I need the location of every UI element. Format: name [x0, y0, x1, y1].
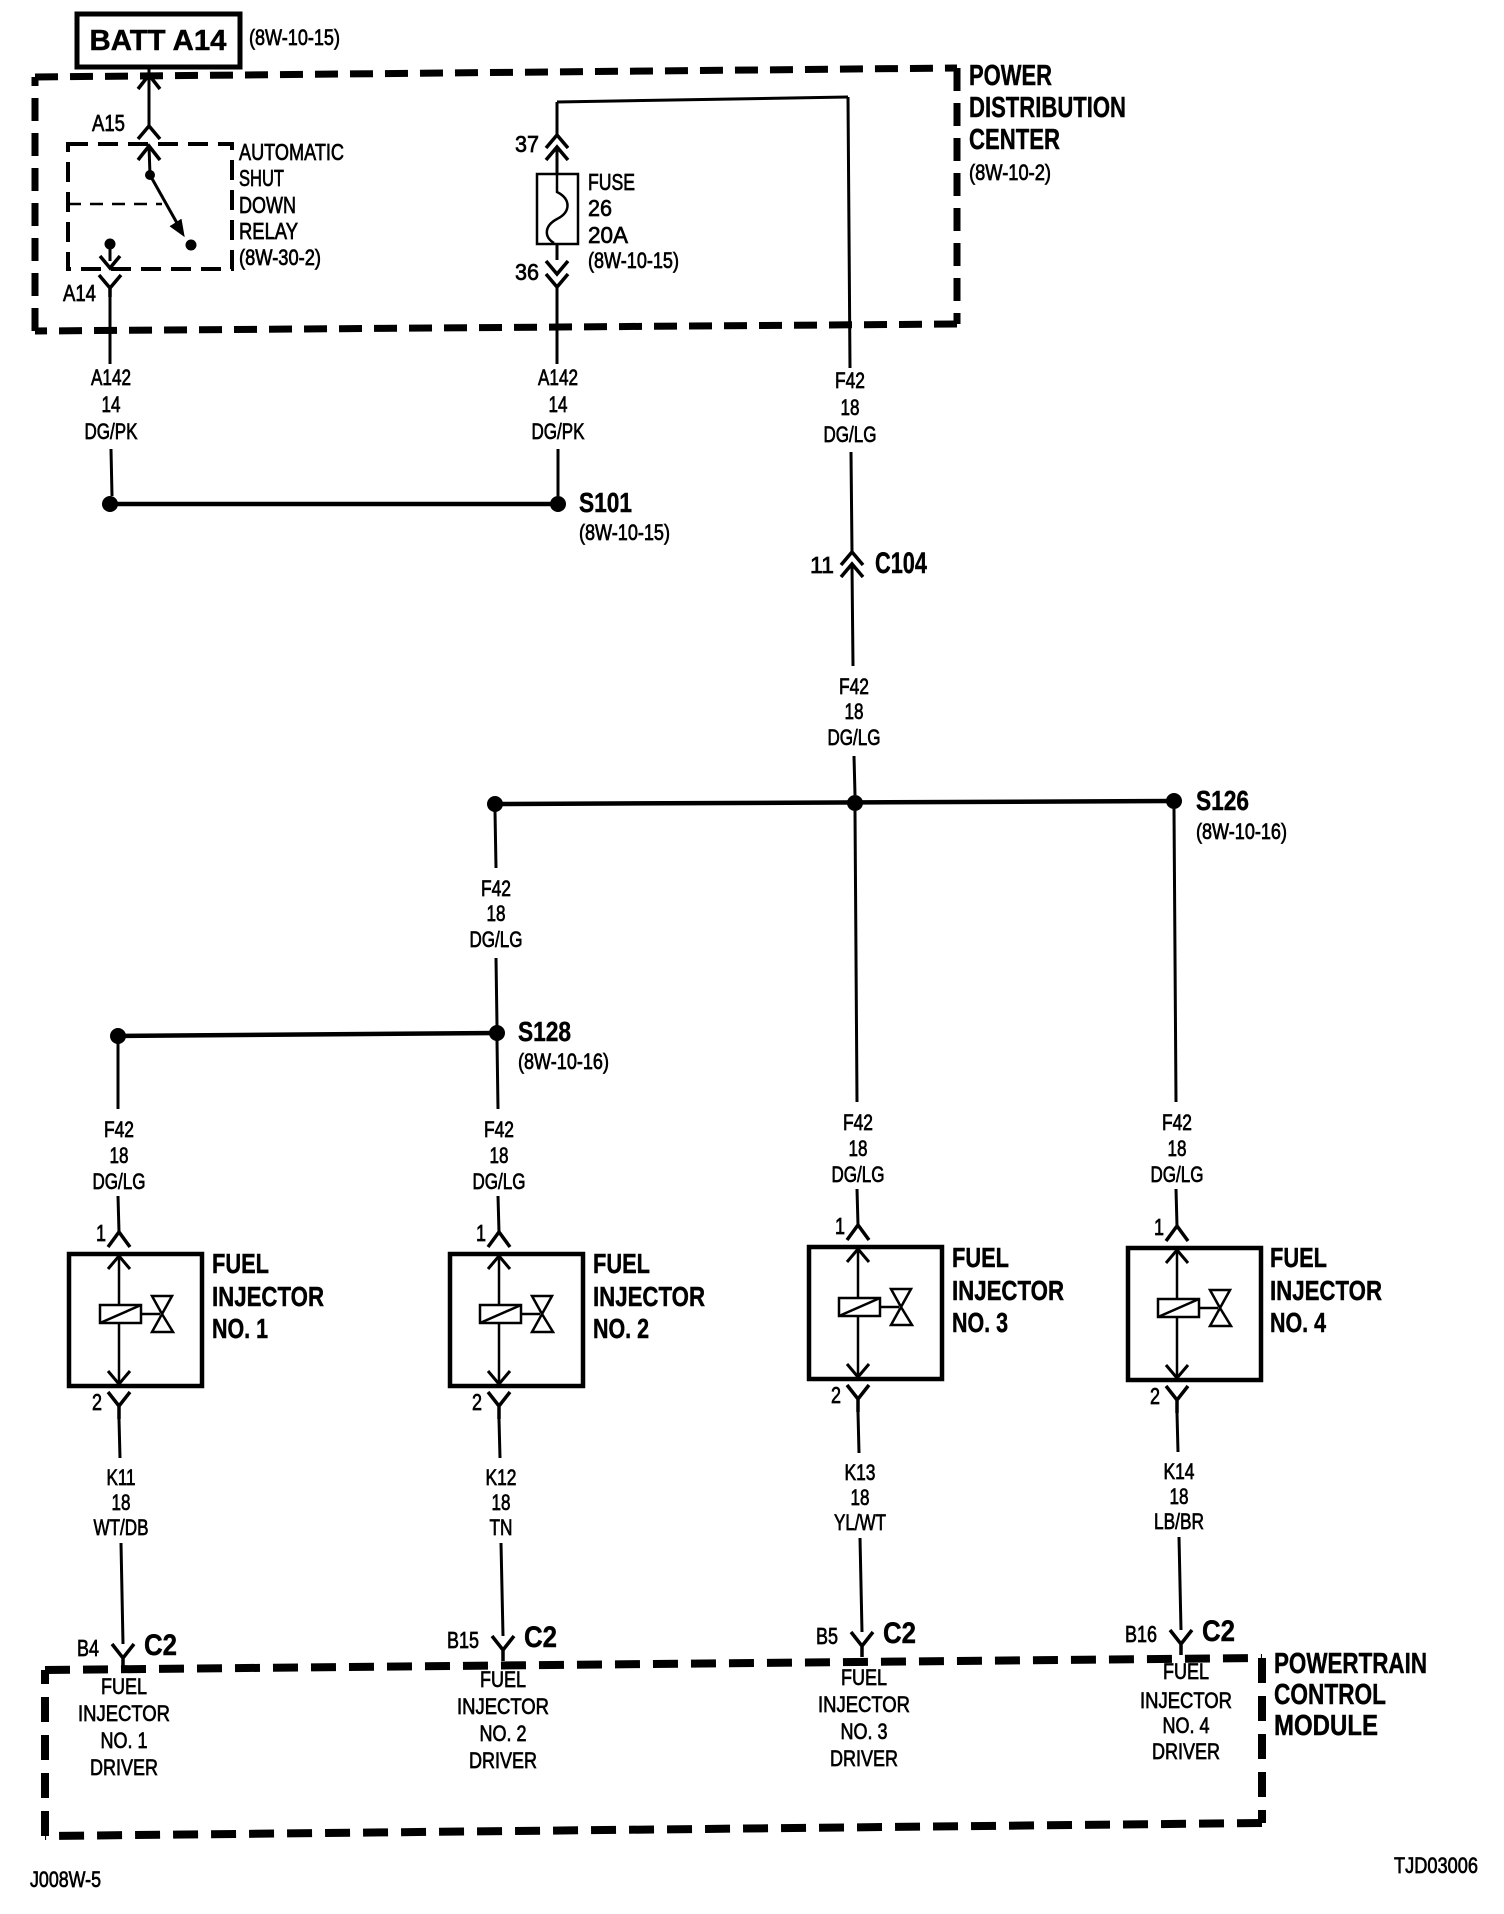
injector 4 internal output arrowhead [1166, 1365, 1188, 1378]
svg-text:DG/PK: DG/PK [85, 419, 138, 444]
injector 1 internal wire lower [118, 1323, 121, 1382]
svg-text:A14: A14 [63, 280, 96, 306]
injector 3 internal output arrowhead [847, 1364, 869, 1377]
svg-text:1: 1 [835, 1213, 845, 1239]
junction dot S126 middle [847, 795, 863, 811]
junction dot S128 [489, 1025, 505, 1041]
svg-text:14: 14 [102, 392, 121, 417]
injector 4 internal wire upper [1176, 1250, 1179, 1299]
relay switch arm with arrowhead [150, 175, 182, 232]
svg-text:18: 18 [1170, 1484, 1189, 1509]
wire injector 1 pin 2 to PCM (K11) [119, 1419, 120, 1458]
pin 1 connector chevron (injector 1) [108, 1232, 130, 1247]
power distribution center dashed box [35, 68, 957, 77]
svg-text:NO. 4: NO. 4 [1163, 1713, 1210, 1738]
wire injector 4 pin 2 to PCM (K14) [1177, 1413, 1178, 1452]
svg-text:A142: A142 [538, 365, 578, 390]
svg-text:C104: C104 [875, 547, 927, 580]
svg-text:INJECTOR: INJECTOR [593, 1281, 705, 1312]
wire F42 to fuel injector no. 1 [117, 1043, 120, 1109]
svg-text:DRIVER: DRIVER [90, 1755, 158, 1780]
svg-text:DG/LG: DG/LG [470, 927, 523, 952]
wire PDC feed to fuse (horizontal) [557, 97, 848, 102]
injector 1 nozzle valve symbol [152, 1296, 173, 1332]
pin 2 connector chevron (injector 3) [847, 1385, 869, 1412]
svg-text:POWER: POWER [969, 60, 1052, 92]
svg-text:K12: K12 [486, 1465, 517, 1490]
wire relay output to pin A14 [109, 249, 112, 261]
svg-text:C2: C2 [524, 1621, 557, 1654]
svg-text:C2: C2 [1202, 1615, 1235, 1648]
svg-text:(8W-30-2): (8W-30-2) [239, 245, 321, 270]
connector chevron A14 [99, 275, 121, 297]
svg-text:1: 1 [1154, 1214, 1164, 1240]
svg-text:DISTRIBUTION: DISTRIBUTION [969, 92, 1126, 124]
wire F42 to fuel injector no. 2 [497, 1040, 498, 1109]
svg-text:NO. 4: NO. 4 [1270, 1307, 1326, 1338]
svg-text:NO. 2: NO. 2 [480, 1721, 527, 1746]
wire injector 2 pin 2 to PCM (K12) [499, 1419, 500, 1458]
svg-text:S128: S128 [518, 1016, 571, 1047]
svg-text:F42: F42 [1162, 1110, 1192, 1135]
wire fuse pin 36 down to splice S101 (A142 14 DG/PK) [556, 244, 559, 260]
wire into injector 2 pin 1 [498, 1196, 499, 1232]
connector double chevron pin 37 [546, 135, 568, 148]
fuel injector no. 4 box [1128, 1248, 1261, 1380]
connector chevron A15 [138, 126, 160, 139]
svg-text:YL/WT: YL/WT [834, 1510, 886, 1535]
injector 1 internal output arrowhead [108, 1371, 130, 1384]
svg-text:RELAY: RELAY [239, 218, 298, 244]
fuse 26 body [537, 174, 578, 244]
connector C104 double chevron [841, 552, 863, 565]
junction dot left of S101 [102, 496, 118, 512]
svg-text:DRIVER: DRIVER [1152, 1739, 1220, 1764]
svg-text:A15: A15 [92, 110, 125, 136]
svg-text:K11: K11 [107, 1465, 136, 1490]
svg-text:18: 18 [845, 699, 864, 724]
pin 1 connector chevron (injector 4) [1166, 1226, 1188, 1241]
injector 1 internal wire upper [118, 1256, 121, 1305]
svg-text:(8W-10-15): (8W-10-15) [579, 520, 670, 545]
injector 4 internal wire lower [1176, 1317, 1179, 1376]
injector 1 internal feed arrowhead [108, 1256, 130, 1269]
svg-text:18: 18 [851, 1485, 870, 1510]
injector 2 nozzle link [521, 1313, 540, 1316]
wire to splice S126 [854, 756, 855, 795]
wire to splice S101 right [557, 449, 560, 496]
svg-text:NO. 3: NO. 3 [841, 1719, 888, 1744]
PCM pin connector chevron (B15) [492, 1636, 514, 1661]
relay output contact [105, 239, 116, 250]
pin 2 connector chevron (injector 2) [488, 1392, 510, 1419]
injector 3 nozzle link [880, 1306, 899, 1309]
svg-text:CENTER: CENTER [969, 124, 1060, 156]
svg-text:NO. 2: NO. 2 [593, 1313, 649, 1344]
svg-text:14: 14 [549, 392, 568, 417]
svg-text:A142: A142 [91, 365, 131, 390]
svg-text:B15: B15 [447, 1627, 479, 1653]
svg-text:DOWN: DOWN [239, 192, 296, 218]
PCM pin connector chevron (B4) [112, 1644, 134, 1669]
relay switch thrown contact [186, 240, 197, 251]
wire C104 to F42 label [852, 566, 853, 666]
wire into injector 1 pin 1 [118, 1196, 119, 1232]
injector 2 internal wire upper [498, 1256, 501, 1305]
injector 2 solenoid coil [480, 1305, 521, 1323]
wire to splice S101 left [111, 449, 112, 496]
svg-text:18: 18 [490, 1143, 509, 1168]
wire into injector 4 pin 1 [1176, 1189, 1177, 1226]
PCM pin connector chevron (B5) [851, 1632, 873, 1657]
injector 4 solenoid coil [1158, 1299, 1199, 1317]
wire injector 3 pin 2 to PCM (K13) [858, 1412, 859, 1453]
wire BATT A14 down to ASD relay [148, 67, 151, 126]
powertrain control module dashed box [45, 1658, 1262, 1670]
svg-text:FUEL: FUEL [593, 1248, 650, 1279]
injector 3 internal wire upper [857, 1249, 860, 1298]
svg-text:NO. 1: NO. 1 [212, 1313, 268, 1344]
svg-text:F42: F42 [104, 1117, 134, 1142]
svg-text:DG/PK: DG/PK [532, 419, 585, 444]
battery feed box BATT A14 [77, 14, 240, 67]
injector 3 nozzle valve symbol [891, 1289, 912, 1325]
injector 4 nozzle link [1199, 1307, 1218, 1310]
junction dot S101 [550, 496, 566, 512]
svg-text:(8W-10-15): (8W-10-15) [588, 248, 679, 273]
svg-text:AUTOMATIC: AUTOMATIC [239, 139, 344, 165]
svg-text:18: 18 [841, 395, 860, 420]
svg-text:WT/DB: WT/DB [94, 1515, 149, 1540]
svg-text:DRIVER: DRIVER [469, 1748, 537, 1773]
splice S126 wire [495, 801, 1174, 804]
injector 1 nozzle link [141, 1313, 160, 1316]
wire into injector 3 pin 1 [857, 1189, 858, 1225]
svg-text:37: 37 [515, 131, 539, 157]
svg-text:18: 18 [487, 901, 506, 926]
svg-text:INJECTOR: INJECTOR [212, 1281, 324, 1312]
svg-text:FUSE: FUSE [588, 169, 635, 195]
svg-text:DRIVER: DRIVER [830, 1746, 898, 1771]
svg-text:SHUT: SHUT [239, 165, 284, 191]
svg-text:F42: F42 [843, 1110, 873, 1135]
svg-text:INJECTOR: INJECTOR [818, 1692, 910, 1717]
svg-text:FUEL: FUEL [1270, 1242, 1327, 1273]
svg-text:18: 18 [110, 1143, 129, 1168]
svg-text:18: 18 [492, 1490, 511, 1515]
injector 2 internal feed arrowhead [488, 1256, 510, 1269]
svg-text:(8W-10-15): (8W-10-15) [249, 25, 340, 50]
injector 3 solenoid coil [839, 1298, 880, 1316]
pin 1 connector chevron (injector 3) [847, 1225, 869, 1240]
injector 2 nozzle valve symbol [532, 1296, 553, 1332]
fuse element S-curve [547, 174, 568, 243]
wire F42 from PDC down to C104 [848, 97, 850, 368]
svg-text:J008W-5: J008W-5 [30, 1867, 101, 1892]
svg-text:36: 36 [515, 259, 539, 285]
svg-text:F42: F42 [835, 368, 865, 393]
svg-text:2: 2 [831, 1382, 841, 1408]
wire chevron to fuse [556, 149, 559, 174]
svg-text:TN: TN [490, 1515, 513, 1540]
fuel injector no. 2 box [450, 1254, 583, 1386]
svg-text:INJECTOR: INJECTOR [457, 1694, 549, 1719]
svg-text:NO. 3: NO. 3 [952, 1307, 1008, 1338]
svg-text:BATT A14: BATT A14 [90, 25, 227, 57]
svg-text:F42: F42 [481, 876, 511, 901]
wire down to PCM pin B15 [501, 1543, 503, 1636]
svg-text:B5: B5 [816, 1623, 838, 1649]
wire down to fuse pin 37 [556, 102, 559, 135]
svg-text:FUEL: FUEL [212, 1248, 269, 1279]
svg-text:(8W-10-2): (8W-10-2) [969, 160, 1051, 185]
svg-text:11: 11 [810, 552, 834, 578]
svg-text:1: 1 [96, 1220, 106, 1246]
splice S101 wire [110, 502, 558, 507]
injector 3 internal wire lower [857, 1316, 860, 1375]
svg-text:DG/LG: DG/LG [1151, 1162, 1204, 1187]
svg-text:K14: K14 [1164, 1459, 1195, 1484]
svg-text:TJD03006: TJD03006 [1394, 1853, 1478, 1878]
svg-text:K13: K13 [845, 1460, 876, 1485]
wire S126 to S128 branch [495, 811, 496, 868]
svg-text:FUEL: FUEL [952, 1242, 1009, 1273]
svg-text:26: 26 [588, 195, 612, 221]
PCM pin connector chevron (B16) [1170, 1630, 1192, 1655]
svg-text:FUEL: FUEL [480, 1667, 526, 1692]
svg-text:20A: 20A [588, 222, 629, 248]
junction dot S126 [1166, 793, 1182, 809]
svg-text:DG/LG: DG/LG [824, 422, 877, 447]
svg-text:18: 18 [1168, 1136, 1187, 1161]
svg-text:F42: F42 [839, 674, 869, 699]
svg-text:2: 2 [472, 1389, 482, 1415]
svg-text:B16: B16 [1125, 1621, 1157, 1647]
pin 1 connector chevron (injector 2) [488, 1232, 510, 1247]
svg-text:DG/LG: DG/LG [93, 1169, 146, 1194]
fuel injector no. 1 box [69, 1254, 202, 1386]
automatic shut down relay dashed box [68, 144, 232, 269]
svg-text:INJECTOR: INJECTOR [1140, 1688, 1232, 1713]
svg-text:(8W-10-16): (8W-10-16) [1196, 819, 1287, 844]
svg-text:C2: C2 [144, 1629, 177, 1662]
relay coil divider dashed line [68, 203, 162, 206]
svg-text:2: 2 [92, 1389, 102, 1415]
wire to connector C104 [851, 452, 852, 552]
svg-text:B4: B4 [77, 1635, 99, 1661]
wire down to PCM pin B16 [1179, 1537, 1181, 1630]
junction dot S128 left branch [110, 1028, 126, 1044]
svg-text:2: 2 [1150, 1383, 1160, 1409]
svg-text:POWERTRAIN: POWERTRAIN [1274, 1648, 1427, 1680]
svg-text:1: 1 [476, 1220, 486, 1246]
relay switch pivot contact [145, 170, 155, 180]
svg-text:S101: S101 [579, 487, 632, 518]
arrowhead leaving ASD relay [100, 256, 120, 268]
junction dot S126 left branch [487, 796, 503, 812]
svg-text:NO. 1: NO. 1 [101, 1728, 148, 1753]
svg-text:18: 18 [849, 1136, 868, 1161]
wire F42 to fuel injector no. 4 [1174, 809, 1176, 1102]
wire F42 to fuel injector no. 3 [855, 811, 857, 1102]
injector 3 internal feed arrowhead [847, 1249, 869, 1262]
pin 2 connector chevron (injector 1) [108, 1392, 130, 1419]
wire A14 to splice S101 (A142 14 DG/PK) [109, 297, 112, 364]
fuel injector no. 3 box [809, 1247, 942, 1379]
svg-text:(8W-10-16): (8W-10-16) [518, 1049, 609, 1074]
wire down to PCM pin B4 [121, 1543, 123, 1644]
injector 4 nozzle valve symbol [1210, 1290, 1231, 1326]
svg-text:DG/LG: DG/LG [832, 1162, 885, 1187]
svg-text:S126: S126 [1196, 785, 1249, 816]
svg-text:F42: F42 [484, 1117, 514, 1142]
svg-text:MODULE: MODULE [1274, 1710, 1378, 1742]
injector 1 solenoid coil [100, 1305, 141, 1323]
wire down to PCM pin B5 [860, 1538, 862, 1632]
svg-text:FUEL: FUEL [841, 1665, 887, 1690]
svg-text:INJECTOR: INJECTOR [1270, 1275, 1382, 1306]
svg-text:18: 18 [112, 1490, 131, 1515]
injector 4 internal feed arrowhead [1166, 1250, 1188, 1263]
svg-text:INJECTOR: INJECTOR [952, 1275, 1064, 1306]
splice S128 wire [118, 1033, 497, 1036]
svg-text:DG/LG: DG/LG [828, 725, 881, 750]
svg-text:LB/BR: LB/BR [1154, 1509, 1204, 1534]
wire to splice S128 [496, 958, 497, 1026]
pin 2 connector chevron (injector 4) [1166, 1386, 1188, 1413]
arrowhead at PDC boundary [138, 75, 160, 89]
arrowhead entering ASD relay [138, 146, 160, 160]
connector double chevron pin 36 [546, 261, 568, 274]
injector 2 internal output arrowhead [488, 1371, 510, 1384]
svg-text:INJECTOR: INJECTOR [78, 1701, 170, 1726]
svg-text:C2: C2 [883, 1617, 916, 1650]
svg-text:DG/LG: DG/LG [473, 1169, 526, 1194]
injector 2 internal wire lower [498, 1323, 501, 1382]
svg-text:FUEL: FUEL [101, 1674, 147, 1699]
svg-text:CONTROL: CONTROL [1274, 1679, 1386, 1711]
